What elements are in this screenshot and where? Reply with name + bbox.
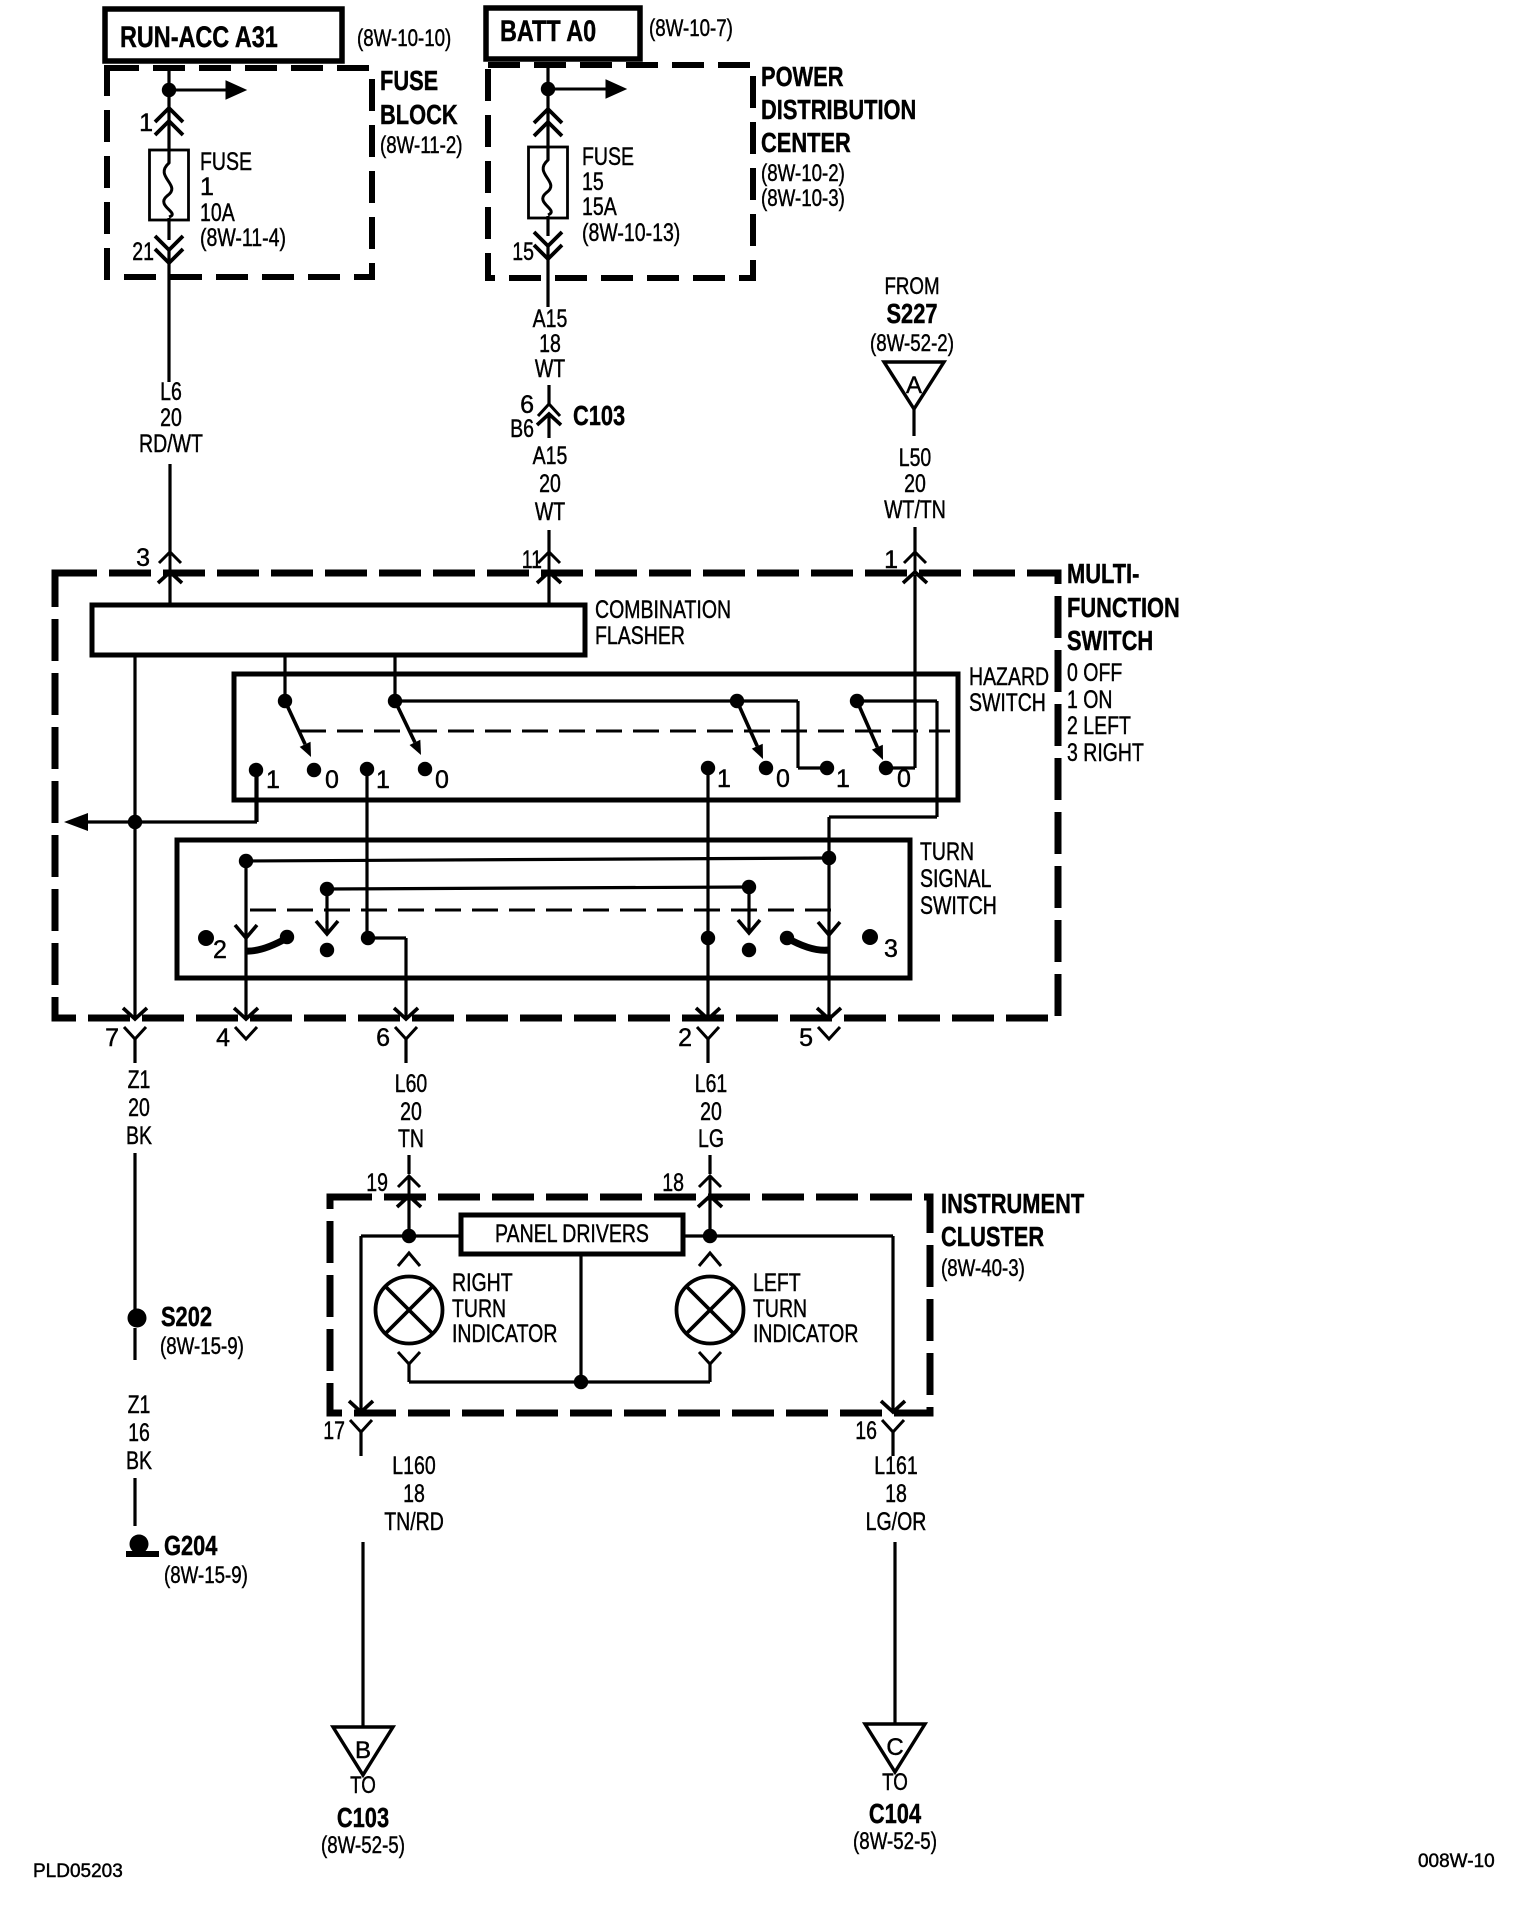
svg-text:0: 0: [435, 766, 449, 794]
svg-text:PLD05203: PLD05203: [33, 1861, 123, 1882]
svg-text:1: 1: [884, 546, 898, 574]
svg-text:(8W-15-9): (8W-15-9): [164, 1562, 248, 1589]
svg-text:FLASHER: FLASHER: [595, 622, 685, 650]
svg-text:FUSE: FUSE: [582, 143, 634, 171]
svg-text:(8W-11-2): (8W-11-2): [380, 132, 463, 159]
svg-text:C103: C103: [337, 1802, 389, 1833]
svg-text:BK: BK: [126, 1122, 152, 1150]
svg-text:A15: A15: [533, 305, 568, 333]
svg-text:6: 6: [376, 1024, 390, 1052]
svg-text:L60: L60: [395, 1070, 428, 1098]
svg-text:A: A: [906, 372, 922, 399]
svg-text:BK: BK: [126, 1447, 152, 1475]
svg-text:Z1: Z1: [128, 1066, 151, 1094]
svg-text:SIGNAL: SIGNAL: [920, 865, 992, 893]
svg-text:3 RIGHT: 3 RIGHT: [1067, 739, 1144, 767]
svg-text:(8W-15-9): (8W-15-9): [160, 1333, 244, 1360]
svg-text:1: 1: [200, 173, 214, 201]
svg-text:20: 20: [539, 470, 561, 498]
svg-text:WT/TN: WT/TN: [884, 496, 946, 524]
svg-text:S202: S202: [161, 1301, 212, 1332]
svg-text:L61: L61: [695, 1070, 728, 1098]
svg-text:16: 16: [855, 1417, 877, 1445]
svg-text:BATT A0: BATT A0: [500, 15, 596, 48]
svg-text:WT: WT: [535, 355, 565, 383]
svg-text:TO: TO: [882, 1769, 908, 1796]
svg-text:INSTRUMENT: INSTRUMENT: [941, 1188, 1084, 1219]
svg-text:FROM: FROM: [884, 273, 939, 300]
svg-text:B: B: [355, 1737, 371, 1764]
svg-text:4: 4: [216, 1024, 230, 1052]
svg-text:TURN: TURN: [920, 838, 974, 866]
svg-text:LEFT: LEFT: [753, 1269, 801, 1297]
svg-text:INDICATOR: INDICATOR: [753, 1320, 858, 1348]
svg-text:SWITCH: SWITCH: [1067, 625, 1153, 656]
svg-text:C: C: [886, 1734, 903, 1761]
svg-text:FUNCTION: FUNCTION: [1067, 592, 1180, 623]
svg-text:15: 15: [512, 238, 534, 266]
svg-text:15: 15: [582, 168, 604, 196]
svg-text:1: 1: [139, 109, 153, 137]
svg-text:3: 3: [136, 544, 150, 572]
svg-text:RD/WT: RD/WT: [139, 430, 203, 458]
svg-text:RIGHT: RIGHT: [452, 1269, 513, 1297]
svg-text:TURN: TURN: [753, 1295, 807, 1323]
svg-text:15A: 15A: [582, 193, 617, 221]
svg-text:(8W-10-13): (8W-10-13): [582, 219, 680, 247]
svg-text:(8W-40-3): (8W-40-3): [941, 1255, 1025, 1282]
svg-text:POWER: POWER: [761, 61, 844, 92]
svg-text:Z1: Z1: [128, 1391, 151, 1419]
svg-text:0: 0: [776, 765, 790, 793]
svg-text:1: 1: [717, 765, 731, 793]
svg-text:TO: TO: [350, 1772, 376, 1799]
svg-text:21: 21: [132, 238, 154, 266]
svg-text:5: 5: [799, 1024, 813, 1052]
svg-text:1: 1: [376, 766, 390, 794]
svg-text:20: 20: [160, 404, 182, 432]
svg-text:(8W-52-2): (8W-52-2): [870, 330, 954, 357]
svg-text:20: 20: [128, 1094, 150, 1122]
svg-text:G204: G204: [164, 1530, 218, 1561]
svg-text:(8W-10-3): (8W-10-3): [761, 185, 845, 212]
svg-text:CENTER: CENTER: [761, 127, 851, 158]
svg-text:SWITCH: SWITCH: [920, 892, 997, 920]
svg-text:A15: A15: [533, 442, 568, 470]
svg-text:LG: LG: [698, 1125, 724, 1153]
svg-text:CLUSTER: CLUSTER: [941, 1221, 1044, 1252]
svg-text:(8W-52-5): (8W-52-5): [853, 1828, 937, 1855]
svg-text:L160: L160: [392, 1452, 435, 1480]
svg-text:COMBINATION: COMBINATION: [595, 596, 731, 624]
svg-text:FUSE: FUSE: [380, 65, 438, 96]
svg-text:11: 11: [522, 546, 542, 574]
svg-text:18: 18: [403, 1480, 425, 1508]
svg-text:(8W-10-10): (8W-10-10): [357, 25, 451, 52]
svg-text:(8W-10-2): (8W-10-2): [761, 160, 845, 187]
svg-text:SWITCH: SWITCH: [969, 689, 1046, 717]
svg-text:FUSE: FUSE: [200, 148, 252, 176]
svg-text:0 OFF: 0 OFF: [1067, 659, 1122, 687]
svg-text:PANEL DRIVERS: PANEL DRIVERS: [495, 1220, 649, 1248]
svg-text:20: 20: [700, 1098, 722, 1126]
svg-text:3: 3: [884, 935, 898, 963]
svg-text:INDICATOR: INDICATOR: [452, 1320, 557, 1348]
svg-text:18: 18: [539, 330, 561, 358]
svg-text:10A: 10A: [200, 199, 235, 227]
svg-text:WT: WT: [535, 498, 565, 526]
svg-text:L6: L6: [160, 378, 182, 406]
svg-text:16: 16: [128, 1419, 150, 1447]
svg-text:17: 17: [323, 1417, 345, 1445]
svg-text:008W-10: 008W-10: [1418, 1851, 1495, 1872]
svg-text:LG/OR: LG/OR: [866, 1508, 927, 1536]
svg-text:(8W-10-7): (8W-10-7): [649, 15, 733, 42]
svg-text:RUN-ACC A31: RUN-ACC A31: [120, 21, 278, 54]
svg-text:HAZARD: HAZARD: [969, 663, 1049, 691]
svg-text:L161: L161: [874, 1452, 917, 1480]
svg-text:C103: C103: [573, 400, 625, 431]
svg-text:DISTRIBUTION: DISTRIBUTION: [761, 94, 916, 125]
svg-text:(8W-52-5): (8W-52-5): [321, 1832, 405, 1859]
svg-text:TN: TN: [398, 1125, 424, 1153]
svg-text:(8W-11-4): (8W-11-4): [200, 224, 286, 252]
svg-text:L50: L50: [899, 444, 932, 472]
svg-text:18: 18: [662, 1169, 684, 1197]
svg-text:0: 0: [325, 766, 339, 794]
svg-text:TN/RD: TN/RD: [384, 1508, 444, 1536]
svg-text:2 LEFT: 2 LEFT: [1067, 712, 1131, 740]
svg-text:S227: S227: [887, 298, 938, 329]
svg-text:18: 18: [885, 1480, 907, 1508]
svg-text:20: 20: [904, 470, 926, 498]
svg-text:7: 7: [105, 1024, 119, 1052]
svg-text:2: 2: [678, 1024, 692, 1052]
svg-text:1: 1: [266, 766, 280, 794]
svg-text:1 ON: 1 ON: [1067, 686, 1113, 714]
svg-text:BLOCK: BLOCK: [380, 99, 458, 130]
svg-text:B6: B6: [510, 415, 534, 443]
svg-text:TURN: TURN: [452, 1295, 506, 1323]
svg-text:MULTI-: MULTI-: [1067, 558, 1139, 589]
svg-text:20: 20: [400, 1098, 422, 1126]
svg-text:2: 2: [213, 936, 227, 964]
svg-text:1: 1: [836, 765, 850, 793]
svg-text:C104: C104: [869, 1798, 922, 1829]
svg-text:19: 19: [366, 1169, 388, 1197]
